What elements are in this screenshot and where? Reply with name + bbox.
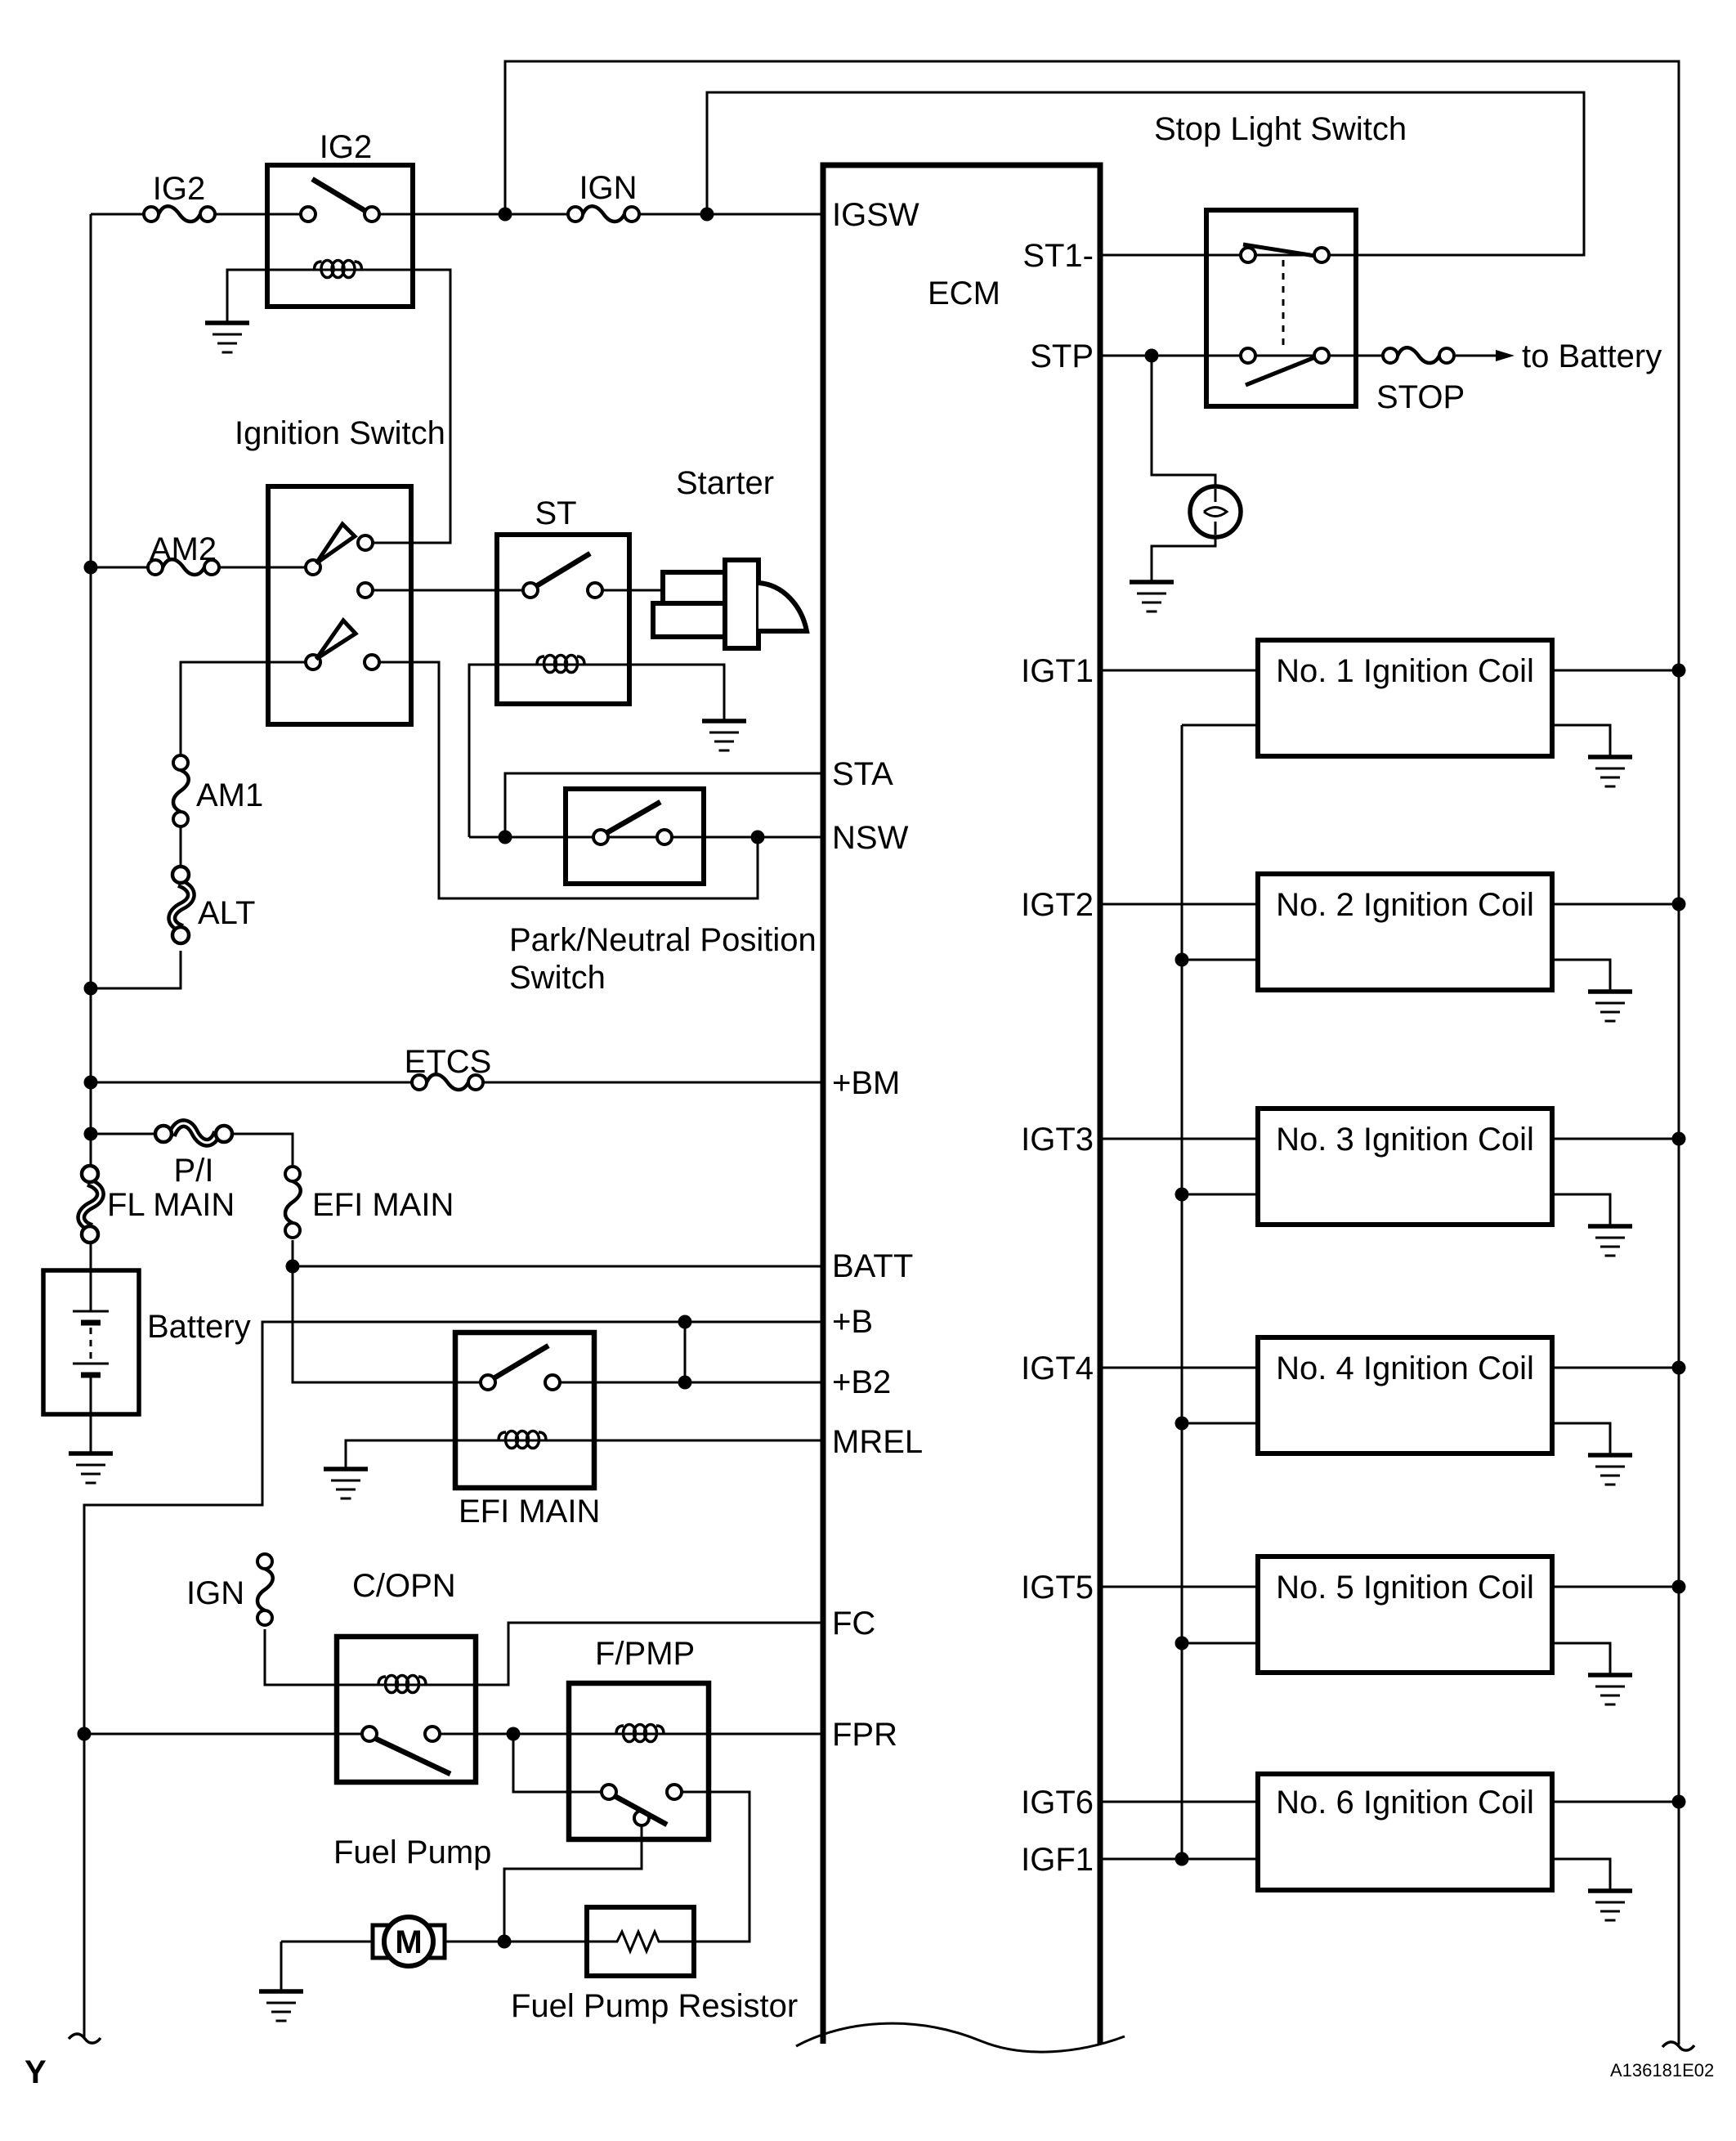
stop light switch contacts upper: [1241, 248, 1255, 262]
svg-text:BATT: BATT: [832, 1248, 913, 1284]
node: right bus junction coil 5: [1672, 1580, 1686, 1594]
relay EFI MAIN box: [455, 1333, 594, 1488]
svg-text:IGF1: IGF1: [1021, 1842, 1094, 1878]
wire: No.5 coil power lead to right bus: [1552, 1586, 1679, 1588]
motor M1 fuel pump: brackets: [373, 1925, 389, 1958]
resistor R1 element: [587, 1932, 694, 1951]
svg-text:ST1-: ST1-: [1022, 238, 1094, 274]
stop light switch upper lever: [1243, 244, 1315, 256]
ignition coil U6 box: [1258, 1774, 1552, 1890]
svg-text:FC: FC: [832, 1606, 875, 1642]
fuse IGN: [568, 206, 639, 222]
park/neutral switch contacts: [593, 830, 608, 844]
svg-text:IGT3: IGT3: [1021, 1122, 1094, 1158]
wire: stop lamp drop from STP node: [1152, 362, 1215, 580]
ground: battery: [69, 1453, 113, 1483]
node L: FPR tap on left feed: [78, 1727, 92, 1741]
ground: No.6 ignition coil: [1588, 1891, 1632, 1920]
svg-text:A136181E02: A136181E02: [1610, 2060, 1714, 2081]
node O: STP lamp tap: [1145, 349, 1159, 363]
fuse IG2: [144, 206, 215, 222]
svg-text:STOP: STOP: [1376, 379, 1465, 415]
node E: STA junction on NSW line: [499, 831, 512, 844]
wire: +B2 line from EFI MAIN relay to ECM: [560, 1382, 823, 1384]
wire: IGT3 line ECM to coil: [1100, 1138, 1258, 1140]
wire: F/PMP switch lower throw to pump motor: [504, 1825, 642, 1942]
fuse STOP: [1383, 347, 1454, 363]
wire: No.4 coil ground lead: [1552, 1423, 1610, 1453]
wire: STA from ECM to NSW junction: [505, 773, 823, 837]
starter motor lower body: [653, 603, 725, 637]
wire: +B line from ECM to fuel pump feed: [84, 1322, 823, 2039]
svg-text:No. 4 Ignition Coil: No. 4 Ignition Coil: [1276, 1350, 1534, 1386]
fuse IGN (C/OPN feed): [257, 1554, 273, 1625]
wire: IGT4 line ECM to coil: [1100, 1367, 1258, 1369]
relay F/PMP switch lever: [615, 1796, 667, 1825]
svg-text:STA: STA: [832, 756, 893, 792]
wire: IGT5 line ECM to coil: [1100, 1586, 1258, 1588]
wire: AM2 feed to ignition switch: [90, 567, 306, 569]
wire: No.4 coil IGF lead: [1182, 1422, 1258, 1425]
relay EFI MAIN switch lever: [494, 1346, 548, 1378]
lamp L1 stop lamp bulb: [1190, 486, 1241, 537]
svg-text:Ignition Switch: Ignition Switch: [235, 415, 445, 451]
node J: +B junction: [678, 1315, 692, 1329]
svg-text:F/PMP: F/PMP: [595, 1636, 695, 1672]
relay IG2 switch contacts: [301, 207, 315, 222]
wire: No.6 coil power lead to right bus: [1552, 1801, 1679, 1803]
svg-text:IGN: IGN: [186, 1575, 244, 1611]
wire: No.2 coil ground lead: [1552, 960, 1610, 990]
relay IG2 coil: [315, 261, 362, 278]
fuse ETCS: [412, 1074, 483, 1090]
node: IGF bus junction coil 2: [1175, 953, 1189, 967]
svg-text:P/I: P/I: [174, 1153, 214, 1189]
wire: ignition switch ST output loop to NSW node: [379, 662, 758, 898]
node: right bus junction coil 4: [1672, 1361, 1686, 1375]
node N: pump motor / resistor junction: [498, 1935, 512, 1949]
relay EFI MAIN coil: [499, 1431, 546, 1449]
wire: IG2 relay coil to ground and to ignition switch: [227, 270, 450, 543]
node: right bus junction coil 6: [1672, 1795, 1686, 1809]
svg-text:FPR: FPR: [832, 1717, 897, 1753]
ground: No.1 ignition coil: [1588, 757, 1632, 786]
node: right bus junction coil 1: [1672, 664, 1686, 678]
node K: +B2 junction: [678, 1376, 692, 1390]
svg-text:Fuel Pump Resistor: Fuel Pump Resistor: [511, 1988, 798, 2024]
node F: ignition switch ST loop junction on NSW line: [751, 831, 765, 844]
svg-text:No. 2 Ignition Coil: No. 2 Ignition Coil: [1276, 887, 1534, 923]
wire break: right bus bottom: [1662, 2042, 1694, 2050]
wire: P/I branch to EFI MAIN fuse and BATT: [90, 1134, 823, 1382]
wire: No.6 coil ground lead: [1552, 1859, 1610, 1889]
relay C/OPN coil: [378, 1676, 426, 1693]
node: right bus junction coil 2: [1672, 898, 1686, 911]
wire: ST relay coil left to NSW line: [469, 665, 540, 837]
wire: AM1/ALT branch from ignition switch: [91, 662, 306, 988]
fusible link FL MAIN: [81, 1166, 101, 1243]
node B: junction after IGN fuse: [700, 208, 714, 222]
fuse AM1: [173, 755, 189, 826]
svg-text:Park/Neutral Position: Park/Neutral Position: [509, 922, 817, 958]
ground: No.4 ignition coil: [1588, 1455, 1632, 1485]
wire: IGT1 line ECM to coil: [1100, 670, 1258, 672]
fuse AM2: [148, 559, 219, 575]
wire: FC line from ECM to C/OPN coil: [265, 1623, 823, 1685]
starter solenoid upper body: [663, 572, 725, 604]
wire: No.3 coil IGF lead: [1182, 1194, 1258, 1196]
wire: IGF bus (left coil bus): [1181, 725, 1183, 1859]
svg-text:IGN: IGN: [579, 170, 637, 206]
fuse EFI MAIN: [285, 1167, 301, 1238]
svg-text:Starter: Starter: [676, 465, 774, 501]
ground: ST relay coil: [702, 721, 746, 750]
wire: battery bottom lead to ground: [90, 1375, 92, 1452]
switch: stop light switch box: [1206, 210, 1356, 406]
svg-text:Y: Y: [25, 2054, 47, 2090]
relay C/OPN switch contacts: [362, 1727, 377, 1741]
svg-text:Switch: Switch: [509, 960, 606, 996]
svg-text:IGSW: IGSW: [832, 197, 919, 233]
svg-text:No. 3 Ignition Coil: No. 3 Ignition Coil: [1276, 1122, 1534, 1158]
svg-text:+B: +B: [832, 1304, 873, 1340]
svg-text:IGT1: IGT1: [1021, 653, 1094, 689]
wire: fuel pump motor leads: [281, 1941, 587, 1943]
svg-text:NSW: NSW: [832, 820, 909, 856]
relay F/PMP box: [569, 1683, 709, 1839]
switch: park/neutral position switch box: [566, 789, 704, 884]
svg-text:M: M: [395, 1924, 422, 1960]
svg-text:Stop Light Switch: Stop Light Switch: [1154, 111, 1407, 147]
ground: stop lamp: [1130, 582, 1174, 611]
node: IGF bus junction coil 4: [1175, 1417, 1189, 1431]
ignition switch upper lever: [316, 524, 355, 563]
svg-text:AM1: AM1: [196, 777, 263, 813]
wire: No.5 coil ground lead: [1552, 1643, 1610, 1673]
arrow: to Battery: [1496, 350, 1515, 361]
node: IGF bus junction coil 3: [1175, 1188, 1189, 1202]
svg-text:FL MAIN: FL MAIN: [107, 1187, 235, 1223]
wire: motor ground lead: [280, 1942, 283, 1990]
svg-text:IGT6: IGT6: [1021, 1785, 1094, 1821]
wire: No.3 coil ground lead: [1552, 1194, 1610, 1225]
svg-text:Fuel Pump: Fuel Pump: [333, 1834, 491, 1870]
svg-text:No. 6 Ignition Coil: No. 6 Ignition Coil: [1276, 1785, 1534, 1821]
relay ST box: [497, 535, 629, 704]
fusible link P/I: [155, 1123, 232, 1143]
battery cell plates: [73, 1310, 109, 1313]
wire: IGF1 line ECM to No.6 coil: [1100, 1858, 1258, 1861]
wire: No.1 coil power lead to right bus: [1552, 670, 1679, 672]
wire: battery top lead: [90, 1241, 92, 1311]
lamp L1 filament: [1204, 489, 1227, 535]
node I: BATT junction: [286, 1260, 300, 1274]
battery box: [43, 1270, 139, 1414]
svg-text:AM2: AM2: [150, 531, 217, 567]
node: IGF bus junction coil 6: [1175, 1852, 1189, 1866]
ground: EFI MAIN relay coil: [324, 1469, 368, 1498]
stop light switch lower lever: [1246, 357, 1315, 385]
wire: STP line through stop light switch to fuse: [1100, 355, 1496, 357]
wire: IGT6 line ECM to coil: [1100, 1801, 1258, 1803]
node: IGF bus junction coil 5: [1175, 1637, 1189, 1651]
svg-text:Battery: Battery: [147, 1309, 251, 1345]
ignition coil U2 box: [1258, 874, 1552, 990]
wire: No.1 coil IGF lead: [1182, 724, 1258, 727]
svg-text:IGT5: IGT5: [1021, 1570, 1094, 1606]
svg-text:ST: ST: [535, 495, 576, 531]
svg-text:C/OPN: C/OPN: [352, 1568, 456, 1604]
resistor R1 fuel pump resistor box: [587, 1907, 694, 1976]
svg-text:+B2: +B2: [832, 1364, 891, 1400]
node: right bus junction coil 3: [1672, 1132, 1686, 1146]
starter bell housing: [758, 583, 807, 631]
wire: upper branch line to ST1- via right side: [707, 92, 1584, 255]
ground: No.3 ignition coil: [1588, 1226, 1632, 1256]
wire: No.5 coil IGF lead: [1182, 1642, 1258, 1645]
ECM box: [823, 165, 1100, 2044]
svg-text:STP: STP: [1030, 338, 1094, 374]
svg-text:No. 1 Ignition Coil: No. 1 Ignition Coil: [1276, 653, 1534, 689]
wire: F/PMP switch common from FPR node: [513, 1734, 602, 1792]
svg-text:IGT4: IGT4: [1021, 1350, 1094, 1386]
svg-text:ALT: ALT: [198, 895, 255, 931]
relay ST coil: [537, 656, 584, 673]
node D: ALT return to left vertical: [84, 982, 98, 996]
motor M1 fuel pump: body: [384, 1917, 433, 1966]
wire: MREL line through EFI MAIN relay coil: [346, 1440, 823, 1467]
node M: F/PMP switch tap: [507, 1727, 521, 1741]
relay ST switch contacts: [523, 583, 538, 598]
relay C/OPN box: [337, 1637, 476, 1782]
park/neutral switch lever: [606, 802, 660, 833]
wire: far-left battery vertical x=111: [90, 214, 92, 1167]
switch: ignition switch box: [268, 486, 411, 724]
svg-text:ECM: ECM: [928, 275, 1000, 311]
ground: No.2 ignition coil: [1588, 992, 1632, 1021]
stop light switch contacts lower: [1241, 348, 1255, 363]
wire: NSW line through park/neutral switch: [469, 836, 823, 839]
starter end plate: [725, 560, 758, 648]
ignition coil U3 box: [1258, 1109, 1552, 1225]
wire: ignition switch to ST relay contact: [373, 589, 663, 592]
ignition coil U4 box: [1258, 1337, 1552, 1453]
wire: FPR line from +B feed through C/OPN and F/PMP coil to ECM: [84, 1733, 823, 1736]
svg-text:+BM: +BM: [832, 1065, 900, 1101]
wire: No.2 coil power lead to right bus: [1552, 903, 1679, 906]
wire: No.4 coil power lead to right bus: [1552, 1367, 1679, 1369]
wire: No.1 coil ground lead: [1552, 725, 1610, 755]
wire: IGT2 line ECM to coil: [1100, 903, 1258, 906]
ignition coil U5 box: [1258, 1556, 1552, 1673]
stop light switch link (dashed): [1282, 260, 1285, 350]
relay F/PMP coil: [616, 1725, 664, 1742]
wire: +BM line with ETCS fuse: [90, 1082, 823, 1084]
wire: F/PMP switch upper throw to resistor: [682, 1792, 749, 1942]
wire: top power line from IGN node to right bus: [505, 61, 1679, 2045]
relay F/PMP switch contacts: [602, 1785, 616, 1799]
relay ST switch lever: [536, 553, 590, 586]
ground: IG2 relay coil: [205, 323, 249, 352]
ignition switch lower lever: [316, 620, 356, 659]
svg-text:EFI MAIN: EFI MAIN: [312, 1187, 454, 1223]
node H: P/I tap on left vertical: [84, 1127, 98, 1141]
svg-text:EFI MAIN: EFI MAIN: [459, 1494, 600, 1530]
relay EFI MAIN switch contacts: [481, 1375, 495, 1390]
wire: No.3 coil power lead to right bus: [1552, 1138, 1679, 1140]
wire: No.2 coil IGF lead: [1182, 959, 1258, 961]
ignition switch contacts: [306, 560, 320, 575]
fusible link ALT: [172, 867, 191, 943]
relay IG2 box: [267, 165, 413, 307]
wire break: bottom-left connector Y: [69, 2034, 101, 2043]
ground: No.5 ignition coil: [1588, 1675, 1632, 1704]
wire: main ignition feed line y=262: [91, 213, 823, 216]
node G: +BM tap on left vertical: [84, 1076, 98, 1090]
svg-text:IGT2: IGT2: [1021, 887, 1094, 923]
ground: fuel pump motor: [259, 1991, 303, 2021]
node A: junction IGN feed / top power line: [499, 208, 512, 222]
svg-text:MREL: MREL: [832, 1424, 923, 1460]
relay C/OPN switch lever: [376, 1739, 450, 1774]
wire: +B to +B2 tie: [684, 1322, 687, 1382]
relay IG2 switch lever: [312, 179, 365, 211]
svg-text:No. 5 Ignition Coil: No. 5 Ignition Coil: [1276, 1570, 1534, 1606]
node C: AM2 tap on left vertical: [84, 561, 98, 575]
svg-text:ETCS: ETCS: [405, 1044, 492, 1080]
ignition coil U1 box: [1258, 640, 1552, 756]
svg-text:IG2: IG2: [153, 171, 205, 207]
ECM bottom wavy cut: [796, 2023, 1125, 2052]
wire: ST relay coil right to ground: [581, 665, 724, 719]
svg-text:to Battery: to Battery: [1522, 338, 1662, 374]
svg-text:IG2: IG2: [320, 129, 372, 165]
